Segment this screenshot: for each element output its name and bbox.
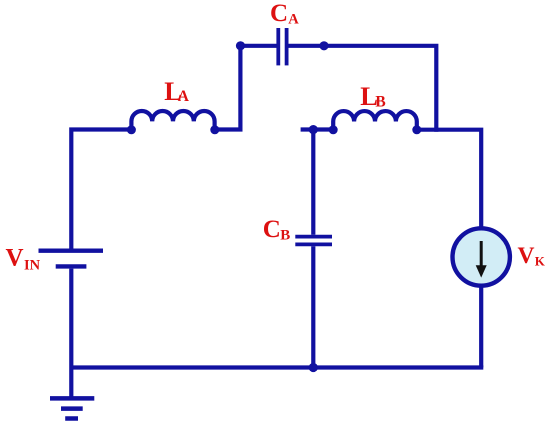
junction dot: C_B top node — [309, 125, 318, 134]
inductor L_B — [329, 111, 422, 134]
junction dot: C_A left node — [236, 41, 245, 50]
junction dot: C_A right node — [319, 41, 328, 50]
wire: C_A right lead across top to right corner, down to L_B output node — [288, 46, 436, 132]
label V_IN — [6, 245, 41, 274]
svg-text:IN: IN — [24, 258, 41, 274]
wire: V_K bottom down to ground rail — [479, 286, 483, 368]
svg-text:B: B — [280, 228, 290, 244]
label C_B — [263, 216, 290, 244]
label C_A — [270, 0, 299, 27]
svg-text:B: B — [375, 93, 385, 110]
current source V_K — [453, 228, 510, 285]
svg-text:V: V — [6, 245, 24, 272]
inductor L_A — [127, 111, 219, 134]
svg-text:C: C — [263, 216, 281, 243]
wire: top net, C_A left lead — [241, 44, 278, 48]
label V_K — [518, 243, 546, 269]
svg-text:A: A — [288, 11, 299, 27]
wire: L_A output up to C_A left node — [215, 46, 240, 130]
svg-text:K: K — [535, 254, 546, 269]
wire: C_B bottom lead — [311, 246, 315, 367]
svg-text:A: A — [178, 88, 190, 105]
capacitor C_A — [278, 28, 286, 65]
wire: C_B top lead — [311, 130, 315, 235]
ground — [50, 398, 94, 418]
label L_B — [360, 81, 385, 111]
wire: L_B output right and down to V_K top — [417, 130, 481, 229]
svg-text:V: V — [518, 243, 535, 269]
svg-text:C: C — [270, 0, 288, 27]
wire: V_IN- down to ground — [69, 269, 73, 398]
capacitor C_B — [295, 237, 332, 245]
junction dot: C_B bottom node — [309, 363, 318, 372]
label L_A — [164, 76, 190, 106]
wire: bottom ground rail — [71, 365, 483, 369]
wire: from V_IN+ up the left side and across to L_A input — [71, 130, 131, 250]
battery V_IN — [39, 251, 104, 267]
wire: stub at C_B top node — [301, 127, 333, 131]
